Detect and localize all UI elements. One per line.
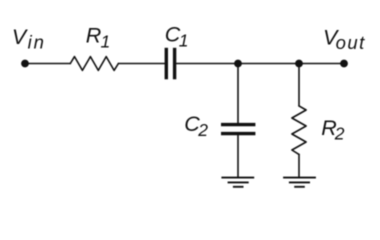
svg-text:R: R xyxy=(86,23,102,47)
label R1 xyxy=(86,23,110,51)
svg-text:1: 1 xyxy=(101,31,111,51)
svg-text:V: V xyxy=(12,25,29,49)
svg-text:2: 2 xyxy=(197,120,208,140)
svg-text:out: out xyxy=(336,32,366,53)
capacitor C2 xyxy=(221,125,255,134)
wire C1 to Vout terminal xyxy=(176,63,344,65)
label C2 xyxy=(184,112,208,140)
wire node A down to C2 xyxy=(237,64,239,123)
wire Vin to R1 xyxy=(25,63,70,65)
capacitor C1 xyxy=(166,48,174,80)
wire node B down to R2 xyxy=(298,64,300,106)
wire R1 to C1 xyxy=(118,63,164,65)
label C1 xyxy=(165,22,189,50)
resistor R2 xyxy=(292,106,306,154)
resistor R1 xyxy=(70,57,118,71)
node Vin terminal xyxy=(21,60,29,68)
svg-text:1: 1 xyxy=(179,31,189,51)
label Vout xyxy=(323,25,366,53)
junction node A xyxy=(234,60,242,68)
node Vout terminal xyxy=(340,60,348,68)
wire R2 to ground xyxy=(298,154,300,177)
svg-text:2: 2 xyxy=(334,124,345,144)
junction node B xyxy=(295,60,303,68)
label Vin xyxy=(12,25,46,53)
wire C2 to ground xyxy=(237,135,239,177)
ground below R2 xyxy=(283,178,316,187)
ground below C2 xyxy=(221,178,254,187)
svg-text:in: in xyxy=(28,32,46,53)
label R2 xyxy=(321,116,345,144)
